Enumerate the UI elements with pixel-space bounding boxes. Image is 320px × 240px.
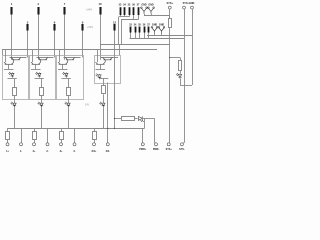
wire SYS LED branch xyxy=(170,57,180,59)
wire R7 to LED D6 xyxy=(180,70,182,74)
wire pin 6 to driver block xyxy=(54,31,56,58)
wire LED return xyxy=(180,85,192,87)
wire U3 supply rail xyxy=(64,57,81,59)
wire LED D2b to bus xyxy=(41,107,43,128)
LED D2a optocoupler xyxy=(36,72,42,78)
wire pin 1 to driver block xyxy=(11,15,13,60)
pin 10 input terminal xyxy=(98,2,102,14)
svg-text:SYS-: SYS- xyxy=(179,148,185,151)
pin 34 connector row1 xyxy=(123,3,126,15)
wire pin 36 row2 drop xyxy=(144,33,146,39)
svg-text:GND: GND xyxy=(148,3,154,6)
transistor Q6 xyxy=(58,60,68,65)
wire routing middle xyxy=(130,38,185,40)
driver block U2 xyxy=(30,56,56,100)
pin 34 connector row2 xyxy=(134,23,137,32)
pin 7 input terminal xyxy=(64,2,66,14)
svg-text:3-: 3- xyxy=(73,150,75,153)
resistor R7 SYS indicator xyxy=(179,61,182,71)
wire U1 node rail xyxy=(4,69,14,71)
terminal PWR+ xyxy=(139,128,147,151)
terminal 3+ xyxy=(60,128,64,153)
LED D1a optocoupler xyxy=(9,72,15,78)
pin 12 input terminal xyxy=(113,21,117,31)
wire R3a to LED xyxy=(68,96,70,102)
svg-text:PWR+: PWR+ xyxy=(139,148,147,151)
svg-text:+24V: +24V xyxy=(87,25,93,29)
svg-text:SYS+: SYS+ xyxy=(166,1,173,5)
transistor Q8 xyxy=(96,60,106,65)
driver block U3 xyxy=(57,56,84,100)
wire U3 emitter drop xyxy=(62,64,64,69)
wire ferrule row2 drops xyxy=(154,32,156,35)
wire pin 9 to driver block xyxy=(82,31,84,58)
wire pin 10 to driver block xyxy=(100,15,102,60)
wire pin 4 to driver block xyxy=(38,15,40,60)
transistor Q7 xyxy=(103,57,113,59)
pin 9 input terminal xyxy=(82,21,84,31)
svg-text:PWR-: PWR- xyxy=(153,148,160,151)
wire U1 output drop xyxy=(14,78,16,87)
wire ferrule row1 drops xyxy=(144,14,146,15)
wire channel4 return drop xyxy=(107,83,109,143)
LED D2b status xyxy=(38,102,44,108)
wire pin 12 to PWR branch xyxy=(114,31,116,129)
wire GND right rail xyxy=(184,38,186,143)
svg-text:SYS-GND: SYS-GND xyxy=(183,1,195,5)
svg-text:GND: GND xyxy=(159,23,165,26)
wire U2 node rail xyxy=(31,69,41,71)
node junction channel4 xyxy=(103,128,104,129)
terminal SYS+ bottom xyxy=(166,143,173,151)
svg-text:D4-: D4- xyxy=(106,150,110,153)
LED D1b status xyxy=(11,102,17,108)
svg-text:1-: 1- xyxy=(20,150,22,153)
wire R5 to LED D5 xyxy=(134,118,138,120)
pin 37 connector row1 xyxy=(137,3,140,15)
wire row1 drop b xyxy=(121,20,123,44)
wire bus end riser xyxy=(144,118,146,128)
wire U4 output rail xyxy=(99,78,108,80)
wire right edge drop xyxy=(192,35,194,85)
wire routing upper xyxy=(147,35,192,37)
wire U3 node rail xyxy=(58,69,68,71)
resistor R1a xyxy=(13,88,17,96)
wire pin 7 to driver block xyxy=(64,15,66,60)
node junction PWR branch xyxy=(114,118,115,119)
pin 36 connector row2 xyxy=(143,23,146,32)
pin 1 input terminal xyxy=(11,2,13,14)
LED D5 PWR indicator xyxy=(138,116,143,122)
wire SYS+ rail xyxy=(169,28,171,143)
terminal PWR- xyxy=(153,143,160,151)
wire pin 3 to driver block xyxy=(27,31,29,58)
wire U1 output rail xyxy=(8,78,17,80)
ground ferrule row2 b xyxy=(158,27,165,34)
wire U3 output drop xyxy=(68,78,70,87)
svg-text:D4+: D4+ xyxy=(92,150,97,153)
wire U2 supply rail xyxy=(37,57,54,59)
wire ferrule row1 bus to SYS resistor xyxy=(144,15,170,17)
pin 6 input terminal xyxy=(54,21,56,31)
wire LED D5 to PWR- drop xyxy=(142,118,155,120)
pin 37 connector row2 xyxy=(147,23,150,32)
node junction bus a xyxy=(114,128,115,129)
terminal SYS-GND top b xyxy=(191,6,194,9)
wire U1 supply rail xyxy=(10,57,27,59)
transistor Q3 xyxy=(38,57,48,59)
pin 3 input terminal xyxy=(27,21,29,31)
wire R2a to LED xyxy=(41,96,43,102)
wire common rail drop into U1 xyxy=(5,49,7,62)
terminal 3- xyxy=(73,128,76,153)
ground ferrule row1 b xyxy=(148,7,155,14)
resistor R5 PWR xyxy=(122,117,135,121)
resistor R6 SYS xyxy=(169,19,172,28)
wire LED D3b to bus xyxy=(68,107,70,128)
pin 33 connector row1 xyxy=(119,3,122,15)
svg-text:GND: GND xyxy=(141,3,147,6)
wire routing drop to block4 xyxy=(119,44,121,55)
wire SYS-GND b drop xyxy=(192,9,194,35)
terminal D4- xyxy=(106,143,110,153)
wire PWR branch horizontal xyxy=(115,118,122,120)
wire U4 emitter drop xyxy=(100,64,102,69)
wire R1a to LED xyxy=(14,96,16,102)
wire U2 emitter drop xyxy=(35,64,37,69)
wire pin 35 row2 drop xyxy=(139,33,141,39)
svg-text:GND: GND xyxy=(152,23,158,26)
wire LED D6 to return xyxy=(180,79,182,85)
driver block U4 xyxy=(95,56,121,84)
wire U4 output drop xyxy=(103,78,105,86)
wire U1 emitter drop xyxy=(8,64,10,69)
LED D3b status xyxy=(65,102,71,108)
wire U4 node rail xyxy=(96,69,106,71)
pin 35 connector row1 xyxy=(128,3,131,15)
wire common rail drop into U4 xyxy=(97,49,99,62)
terminal D4+ xyxy=(92,128,97,153)
wire output bus xyxy=(8,128,145,130)
svg-text:SYS+: SYS+ xyxy=(166,148,173,151)
wire GND rail to terminal xyxy=(182,142,184,144)
LED D6 SYS indicator xyxy=(176,73,182,79)
wire U3 output rail xyxy=(62,78,71,80)
LED D3a optocoupler xyxy=(63,72,69,78)
wire U2 output drop xyxy=(41,78,43,87)
wire LED D1b to bus xyxy=(14,107,16,128)
wire U2 output rail xyxy=(35,78,44,80)
wire common rail xyxy=(2,49,157,51)
driver block U1 xyxy=(3,56,29,100)
wire pin 37 row2 drop xyxy=(148,33,150,39)
wire SYS+ rail upper xyxy=(169,9,171,19)
wire common rail drop into U2 xyxy=(32,49,34,62)
transistor Q1 xyxy=(11,57,21,59)
terminal SYS- bottom xyxy=(179,143,185,151)
wire routing lower xyxy=(100,44,170,46)
transistor Q2 xyxy=(4,60,14,65)
ground ferrule row2 a xyxy=(151,27,158,34)
terminal SYS-GND top a xyxy=(183,6,186,9)
wire row1 drop a xyxy=(118,17,120,44)
transistor Q4 xyxy=(31,60,41,65)
wire R4a to LED xyxy=(103,94,105,102)
svg-text:12: 12 xyxy=(113,21,117,25)
LED D4a optocoupler xyxy=(96,74,102,80)
wire PWR- drop xyxy=(154,118,156,142)
wire common rail left corner xyxy=(2,49,4,55)
pin 4 input terminal xyxy=(37,2,39,14)
node junction bus b xyxy=(107,128,108,129)
wire LED D4b to bus xyxy=(103,107,105,128)
wire common rail drop into U3 xyxy=(59,49,61,62)
wire SYS+ to terminal xyxy=(169,142,170,144)
terminal 2+ xyxy=(33,128,37,153)
resistor R2a xyxy=(40,88,44,96)
terminal SYS+ top xyxy=(168,6,171,9)
wire row1 staircase b xyxy=(133,15,135,20)
wire U4 supply rail xyxy=(101,57,118,59)
svg-text:2-: 2- xyxy=(46,150,48,153)
LED D4b status xyxy=(100,102,106,108)
svg-text:24V: 24V xyxy=(85,104,90,107)
node junction SYS branch xyxy=(169,57,170,58)
ground ferrule row1 a xyxy=(141,7,148,14)
terminal 2- xyxy=(46,128,49,153)
wire pin 34 row2 drop xyxy=(135,33,137,39)
transistor Q5 xyxy=(65,57,75,59)
pin 36 connector row1 xyxy=(132,3,135,15)
svg-text:10: 10 xyxy=(98,2,102,6)
resistor R3a xyxy=(67,88,71,96)
svg-text:+24V: +24V xyxy=(86,8,92,12)
terminal 1+ xyxy=(6,128,10,153)
terminal 1- xyxy=(20,128,23,153)
wire pin 33 row2 drop xyxy=(130,33,132,39)
pin 35 connector row2 xyxy=(138,23,141,32)
pin 33 connector row2 xyxy=(129,23,132,32)
wire row1 staircase a xyxy=(120,15,122,17)
resistor R4a xyxy=(102,86,106,94)
wire SYS-GND a drop xyxy=(184,9,186,38)
